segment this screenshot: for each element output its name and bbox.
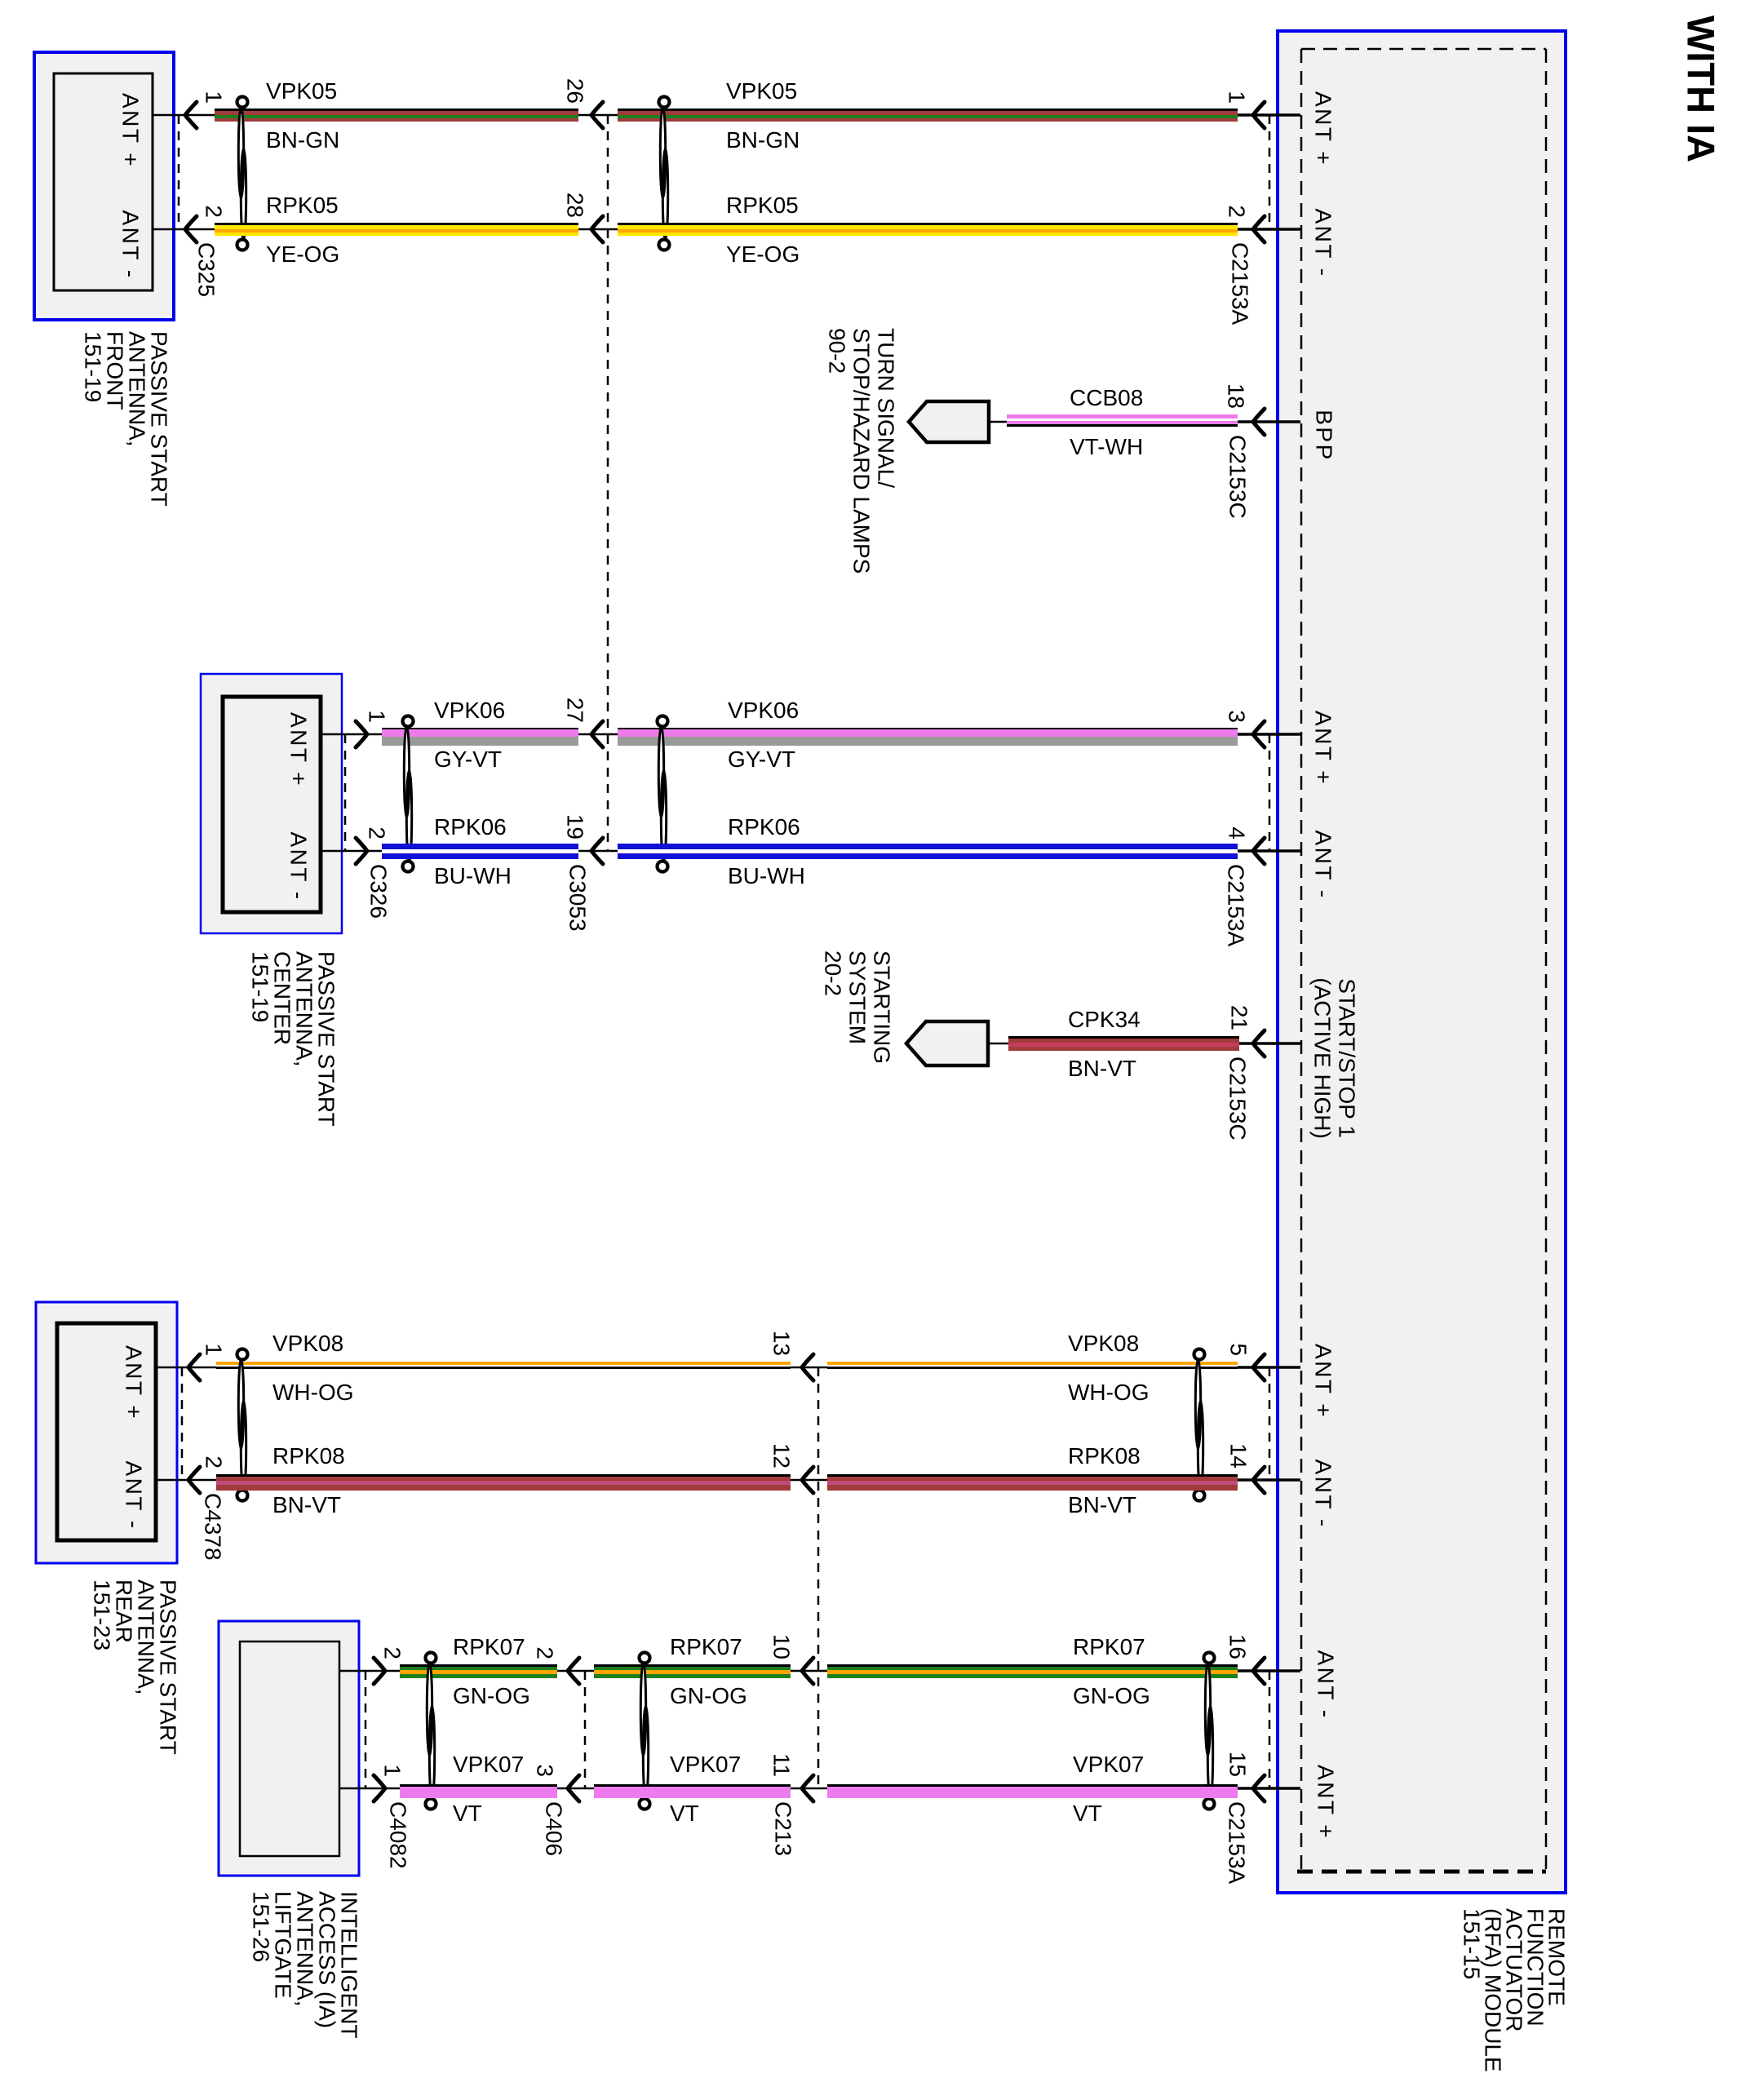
pin number 3 at C406 [533,1764,558,1777]
svg-text:ANT -: ANT - [118,210,144,279]
wire VPK07 stub into module pin 15 [1238,1787,1300,1790]
svg-text:GY-VT: GY-VT [434,747,502,772]
svg-text:C2153A: C2153A [1228,242,1253,326]
connector C326 label [366,864,392,919]
svg-text:BU-WH: BU-WH [434,863,512,888]
connector C325 dashed line [178,115,180,229]
label RPK08 seg2 [1068,1443,1141,1469]
svg-text:1: 1 [365,710,390,723]
connector C2153A dashed line (pins 16-15) [1269,1671,1271,1788]
connector C4378 dashed line [181,1367,184,1480]
label VPK08 seg1 [272,1331,343,1356]
label GY-VT seg1 [434,747,502,772]
svg-text:WH-OG: WH-OG [1068,1380,1150,1405]
label RPK08 seg1 [272,1443,345,1469]
arrow on RPK05 at module pin 2 [1253,216,1265,242]
wire RPK06 BU-WH segment C3053 to module [618,844,1238,859]
svg-text:BPP: BPP [1312,410,1337,462]
wire RPK05 YE-OG segment C3053 to module [618,223,1238,236]
svg-text:ANT -: ANT - [1314,1650,1339,1719]
wire CCB08 VT-WH segment [1007,414,1238,427]
twisted pair symbol RPK07/VPK07 middle [640,1653,650,1810]
antenna FRONT inner box [54,73,153,290]
arrow on RPK06 at module pin 4 [1253,838,1265,864]
svg-text:VPK06: VPK06 [728,698,799,723]
label RPK07 seg1 [453,1634,525,1659]
module pin name ANT - (pin 14) [1311,1459,1336,1528]
twisted pair symbol VPK05/RPK05 left [237,97,248,250]
pin number 21 at module [1227,1005,1252,1030]
svg-text:ANT +: ANT + [1311,711,1336,786]
label VPK08 seg2 [1068,1331,1139,1356]
svg-text:21: 21 [1227,1005,1252,1030]
svg-text:VPK07: VPK07 [453,1752,524,1777]
svg-text:C325: C325 [194,242,219,297]
svg-text:2: 2 [533,1646,558,1659]
wire RPK06 stub into module pin 4 [1238,849,1300,853]
svg-text:RPK07: RPK07 [453,1634,525,1659]
svg-text:2: 2 [380,1646,405,1659]
svg-text:VPK05: VPK05 [726,78,797,104]
label RPK05 seg2 [726,193,799,218]
svg-text:ANT -: ANT - [1311,830,1336,899]
svg-text:ANT +: ANT + [1311,1344,1336,1419]
wire RPK06 BU-WH segment C326 to C3053 [382,844,578,859]
wire VPK07 VT segment C406 to C213 [594,1784,791,1798]
svg-text:2: 2 [202,205,227,218]
svg-text:C2153A: C2153A [1224,864,1249,947]
svg-text:14: 14 [1226,1443,1251,1469]
connector C325 label [194,242,219,297]
label BN-VT seg1 (RPK08) [272,1492,341,1517]
module pin name ANT - (pin 16) [1314,1650,1339,1719]
label WH-OG seg2 [1068,1380,1150,1405]
svg-text:BN-GN: BN-GN [726,127,800,153]
wire VPK08 WH-OG segment C4378 to C213 [216,1362,791,1369]
arrow on VPK05 at front antenna [185,102,197,128]
arrow on RPK05 at C3053 [591,216,603,242]
wire RPK07 gap line at C213 [791,1670,827,1672]
svg-text:151-23: 151-23 [90,1579,115,1650]
svg-text:3: 3 [533,1764,558,1777]
svg-text:ANT -: ANT - [1311,1459,1336,1528]
pin number 1 at liftgate antenna [380,1764,405,1777]
wire RPK07 GN-OG segment C406 to C213 [594,1664,791,1678]
wire RPK06 gap line at C3053 [578,850,618,853]
wire RPK05 YE-OG segment C325 to C3053 [215,223,578,236]
twisted pair symbol RPK07/VPK07 right [1204,1653,1215,1810]
svg-text:RPK07: RPK07 [670,1634,742,1659]
connector C2153C label (pin 18) [1225,435,1251,519]
wire CCB08 stub into module pin 18 [1238,420,1300,423]
wire VPK05 stub into module pin 1 [1238,113,1300,117]
wire RPK05 gap line at C3053 [578,228,618,231]
svg-text:15: 15 [1225,1752,1251,1777]
label BN-GN seg2 [726,127,800,153]
antenna LIFTGATE name label [249,1891,362,2038]
arrow on RPK05 at front antenna [185,216,197,242]
pin number 2 at rear antenna [202,1455,227,1469]
module pin name ANT + (pin 5) [1311,1344,1336,1419]
label GN-OG seg3 [1073,1683,1150,1708]
wire VPK07 VT segment C213 to module [827,1784,1238,1798]
wire VPK07 gap line at C213 [791,1788,827,1790]
svg-text:C4082: C4082 [386,1801,411,1869]
antenna CENTER pin label ANT + [286,712,312,787]
arrow on RPK08 at module pin 14 [1253,1467,1265,1493]
svg-text:10: 10 [769,1634,795,1659]
label GN-OG seg2 [670,1683,747,1708]
wire CPK34 stub at pentagon [988,1043,1008,1045]
svg-text:RPK05: RPK05 [266,193,339,218]
off-page connector TURN SIGNAL label [825,328,899,574]
off-page connector TURN SIGNAL/STOP/HAZARD LAMPS 90-2 symbol [909,401,989,442]
svg-text:YE-OG: YE-OG [266,241,339,267]
wire RPK08 stub into module pin 14 [1238,1478,1300,1482]
svg-text:1: 1 [380,1764,405,1777]
svg-text:ANT +: ANT + [1314,1765,1339,1840]
wire RPK08 gap line at C213 [791,1479,827,1482]
wire RPK05 YE-OG stub at front antenna pin 2 [153,228,215,231]
wire RPK07 gap line at C406 [557,1670,594,1672]
antenna LIFTGATE box [219,1621,359,1876]
svg-text:C2153C: C2153C [1225,1057,1251,1141]
pin number 2 at module [1225,205,1250,218]
label BU-WH seg2 [728,863,805,888]
wire RPK08 BN-VT stub at rear antenna pin 2 [156,1479,216,1482]
antenna REAR inner box [57,1323,156,1540]
svg-text:RPK06: RPK06 [728,814,800,840]
svg-text:TURN SIGNAL/: TURN SIGNAL/ [874,328,899,488]
wire CPK34 BN-VT segment [1008,1036,1239,1051]
antenna FRONT pin label ANT - [118,210,144,279]
title WITH IA [1680,16,1723,162]
pin number 1 at module [1225,91,1250,104]
svg-text:5: 5 [1226,1343,1251,1356]
connector C406 dashed line [584,1671,587,1788]
svg-text:4: 4 [1225,826,1250,840]
svg-text:C3053: C3053 [565,864,591,932]
connector C3053 label [565,864,591,932]
arrow on RPK08 at C213 [802,1467,813,1493]
label VPK05 seg1 [266,78,337,104]
arrow on RPK06 at center antenna [356,838,367,864]
svg-text:C2153A: C2153A [1225,1801,1250,1885]
svg-text:C4378: C4378 [201,1493,226,1561]
pin number 18 at module [1224,383,1249,409]
label VPK05 seg2 [726,78,797,104]
arrow on VPK05 at module pin 1 [1253,102,1265,128]
wire CPK34 stub into module pin 21 [1239,1042,1300,1045]
svg-text:19: 19 [563,814,588,840]
connector C4082 label [386,1801,411,1869]
svg-text:VPK06: VPK06 [434,698,505,723]
wire RPK06 BU-WH stub at center antenna pin 2 [321,850,382,853]
antenna FRONT box [34,52,174,320]
svg-text:2: 2 [202,1455,227,1469]
svg-text:BN-VT: BN-VT [272,1492,341,1517]
module U1 name label [1460,1908,1570,2072]
pin number 16 at module [1225,1634,1251,1659]
antenna CENTER name label [248,951,339,1127]
wire VPK05 BN-GN segment C3053 to module [618,109,1238,122]
antenna FRONT name label [81,331,172,507]
twisted pair symbol VPK08/RPK08 left [237,1349,248,1501]
label GN-OG seg1 [453,1683,530,1708]
wire VPK07 VT stub at liftgate antenna pin 1 [339,1788,400,1790]
svg-text:WH-OG: WH-OG [272,1380,354,1405]
wire VPK06 GY-VT stub at center antenna pin 1 [321,733,382,736]
label CPK34 [1068,1007,1141,1032]
svg-text:RPK07: RPK07 [1073,1634,1145,1659]
wire VPK08 WH-OG stub at rear antenna pin 1 [156,1367,216,1369]
pin number 26 at C3053 [563,78,588,104]
module pin name START/STOP 1 (ACTIVE HIGH) (pin 21) [1310,977,1360,1139]
svg-text:BN-VT: BN-VT [1068,1492,1136,1517]
svg-text:BN-VT: BN-VT [1068,1056,1136,1081]
wire VPK06 GY-VT segment C3053 to module [618,728,1238,746]
module pin name ANT + (pin 3) [1311,711,1336,786]
wire VPK08 WH-OG segment C213 to module [827,1362,1238,1369]
pin number 15 at module [1225,1752,1251,1777]
twisted pair symbol VPK06/RPK06 right [658,716,668,872]
svg-text:YE-OG: YE-OG [726,241,800,267]
svg-text:12: 12 [769,1443,795,1469]
module U1 inner dashed boundary [1297,49,1546,1872]
svg-text:RPK05: RPK05 [726,193,799,218]
svg-text:VPK07: VPK07 [670,1752,741,1777]
wire VPK05 BN-GN stub at front antenna pin 1 [153,114,215,117]
pin number 1 at rear antenna [202,1343,227,1356]
wire RPK08 BN-VT segment C213 to module [827,1474,1238,1491]
antenna CENTER box [201,674,342,933]
svg-text:151-19: 151-19 [81,331,106,402]
pin number 2 at center antenna [365,826,390,840]
wire VPK05 gap line at C3053 [578,114,618,117]
svg-text:26: 26 [563,78,588,104]
arrow on VPK06 at C3053 [591,721,603,747]
connector C4378 label [201,1493,226,1561]
svg-text:BN-GN: BN-GN [266,127,339,153]
arrow on RPK07 at C213 [802,1658,813,1684]
wire RPK07 GN-OG segment C4082 to C406 [400,1664,557,1678]
arrow on VPK06 at module pin 3 [1253,721,1265,747]
svg-text:2: 2 [1225,205,1250,218]
svg-text:151-26: 151-26 [249,1891,274,1962]
label RPK06 seg1 [434,814,507,840]
svg-text:1: 1 [202,1343,227,1356]
wire CCB08 stub at pentagon [989,421,1007,423]
svg-text:18: 18 [1224,383,1249,409]
label VPK07 seg1 [453,1752,524,1777]
svg-text:GN-OG: GN-OG [1073,1683,1150,1708]
arrow on VPK05 at C3053 [591,102,603,128]
label YE-OG seg2 [726,241,800,267]
arrow on VPK07 at liftgate antenna [374,1775,385,1801]
wire RPK07 GN-OG segment C213 to module [827,1664,1238,1678]
wire VPK06 GY-VT segment C326 to C3053 [382,728,578,746]
antenna FRONT pin label ANT + [118,93,144,168]
svg-text:VPK05: VPK05 [266,78,337,104]
antenna REAR name label [90,1579,181,1755]
svg-text:GY-VT: GY-VT [728,747,795,772]
module U1 REMOTE FUNCTION ACTUATOR (RFA) body [1278,31,1566,1893]
label VT-WH [1070,434,1143,459]
svg-text:VT-WH: VT-WH [1070,434,1143,459]
svg-text:151-15: 151-15 [1460,1908,1485,1979]
arrow on CPK34 at module pin 21 [1253,1030,1265,1057]
arrow on VPK08 at C213 [802,1354,813,1380]
svg-text:C2153C: C2153C [1225,435,1251,519]
svg-text:BU-WH: BU-WH [728,863,805,888]
pin number 28 at C3053 [563,193,588,218]
arrow on VPK07 at C213 [802,1775,813,1801]
connector C2153C label (pin 21) [1225,1057,1251,1141]
svg-text:1: 1 [1225,91,1250,104]
twisted pair symbol RPK07/VPK07 left [426,1653,436,1810]
wire VPK08 gap line at C213 [791,1367,827,1369]
label CCB08 [1070,385,1143,410]
wire VPK07 gap line at C406 [557,1788,594,1790]
svg-text:3: 3 [1225,710,1250,723]
svg-text:ANT +: ANT + [286,712,312,787]
svg-text:C213: C213 [771,1801,796,1856]
svg-text:VPK07: VPK07 [1073,1752,1144,1777]
arrow on RPK07 at liftgate antenna [374,1658,385,1684]
antenna REAR pin label ANT + [122,1345,147,1420]
pin number 3 at module [1225,710,1250,723]
label VT seg3 [1073,1801,1102,1826]
svg-text:RPK08: RPK08 [1068,1443,1141,1469]
antenna CENTER pin label ANT - [286,831,312,901]
twisted pair symbol VPK08/RPK08 right [1194,1349,1205,1501]
svg-text:ANT -: ANT - [1311,208,1336,277]
svg-text:STOP/HAZARD LAMPS: STOP/HAZARD LAMPS [849,328,875,574]
wire VPK05 BN-GN segment C325 to C3053 [215,109,578,122]
connector C2153A label (pins 3-4) [1224,864,1249,947]
wire RPK07 stub into module pin 16 [1238,1669,1300,1672]
pin number 19 at C3053 [563,814,588,840]
svg-text:VT: VT [1073,1801,1102,1826]
pin number 2 at C406 [533,1646,558,1659]
label RPK07 seg3 [1073,1634,1145,1659]
svg-text:SYSTEM: SYSTEM [845,950,870,1044]
svg-text:CPK34: CPK34 [1068,1007,1141,1032]
module pin name ANT + (pin 15) [1314,1765,1339,1840]
svg-text:1: 1 [202,91,227,104]
arrow on RPK06 at C3053 [591,838,603,864]
label GY-VT seg2 [728,747,795,772]
svg-text:GN-OG: GN-OG [670,1683,747,1708]
svg-text:VPK08: VPK08 [272,1331,343,1356]
svg-text:16: 16 [1225,1634,1251,1659]
pin number 2 at front antenna [202,205,227,218]
connector C4082 dashed line [365,1671,367,1788]
svg-text:VT: VT [670,1801,699,1826]
svg-text:START/STOP 1: START/STOP 1 [1335,978,1360,1138]
connector C3053 dashed line [607,115,609,851]
svg-text:CCB08: CCB08 [1070,385,1143,410]
svg-text:VPK08: VPK08 [1068,1331,1139,1356]
off-page connector STARTING SYSTEM 20-2 symbol [906,1021,988,1066]
connector C213 dashed line [817,1367,820,1788]
pin number 1 at center antenna [365,710,390,723]
pin number 5 at module [1226,1343,1251,1356]
wire VPK07 VT segment C4082 to C406 [400,1784,557,1798]
antenna LIFTGATE inner box [240,1641,339,1856]
svg-text:90-2: 90-2 [825,328,850,374]
antenna REAR box [36,1302,177,1563]
wire RPK05 stub into module pin 2 [1238,228,1300,231]
svg-text:STARTING: STARTING [870,950,895,1064]
arrow on VPK07 at C406 [568,1775,579,1801]
arrow on VPK06 at center antenna [356,721,367,747]
pin number 12 at C213 [769,1443,795,1469]
svg-text:RPK08: RPK08 [272,1443,345,1469]
label VPK06 seg1 [434,698,505,723]
pin number 14 at module [1226,1443,1251,1469]
label VPK07 seg2 [670,1752,741,1777]
arrow on CCB08 at module pin 18 [1253,409,1265,435]
connector C213 label [771,1801,796,1856]
arrow on VPK07 at module pin 15 [1253,1775,1265,1801]
label BN-GN seg1 [266,127,339,153]
label YE-OG seg1 [266,241,339,267]
label VPK07 seg3 [1073,1752,1144,1777]
label BN-VT (CPK34) [1068,1056,1136,1081]
arrow on VPK08 at module pin 5 [1253,1354,1265,1380]
svg-text:GN-OG: GN-OG [453,1683,530,1708]
connector C2153A label (pins 16-15) [1225,1801,1250,1885]
arrow on RPK07 at module pin 16 [1253,1658,1265,1684]
pin number 11 at C213 [769,1753,795,1777]
label VT seg1 [453,1801,482,1826]
pin number 2 at liftgate antenna [380,1646,405,1659]
connector C2153A dashed line (pins 3-4) [1269,734,1271,851]
svg-text:28: 28 [563,193,588,218]
label WH-OG seg1 [272,1380,354,1405]
svg-text:ANT +: ANT + [122,1345,147,1420]
label BU-WH seg1 [434,863,512,888]
twisted pair symbol VPK05/RPK05 right [659,97,670,250]
module pin name ANT - (pin 4) [1311,830,1336,899]
svg-text:ANT +: ANT + [118,93,144,168]
pin number 4 at module [1225,826,1250,840]
wire RPK07 GN-OG stub at liftgate antenna pin 2 [339,1670,400,1672]
svg-text:27: 27 [563,698,588,723]
pin number 1 at front antenna [202,91,227,104]
wire VPK06 stub into module pin 3 [1238,733,1300,736]
label RPK05 seg1 [266,193,339,218]
wire VPK08 stub into module pin 5 [1238,1366,1300,1369]
label RPK07 seg2 [670,1634,742,1659]
connector C2153A dashed line (pins 1-2) [1269,115,1271,229]
arrow on VPK08 at rear antenna [188,1354,200,1380]
pin number 10 at C213 [769,1634,795,1659]
svg-text:WITH IA: WITH IA [1680,16,1723,162]
pin number 27 at C3053 [563,698,588,723]
off-page connector STARTING SYSTEM label [821,950,895,1064]
svg-text:11: 11 [769,1753,795,1777]
svg-text:2: 2 [365,826,390,840]
label VPK06 seg2 [728,698,799,723]
module pin name ANT + (pin 1) [1311,91,1336,166]
connector C406 label [542,1801,567,1856]
svg-text:RPK06: RPK06 [434,814,507,840]
wire RPK08 BN-VT segment C4378 to C213 [216,1474,791,1491]
wire VPK06 gap line at C3053 [578,733,618,736]
svg-text:C406: C406 [542,1801,567,1856]
